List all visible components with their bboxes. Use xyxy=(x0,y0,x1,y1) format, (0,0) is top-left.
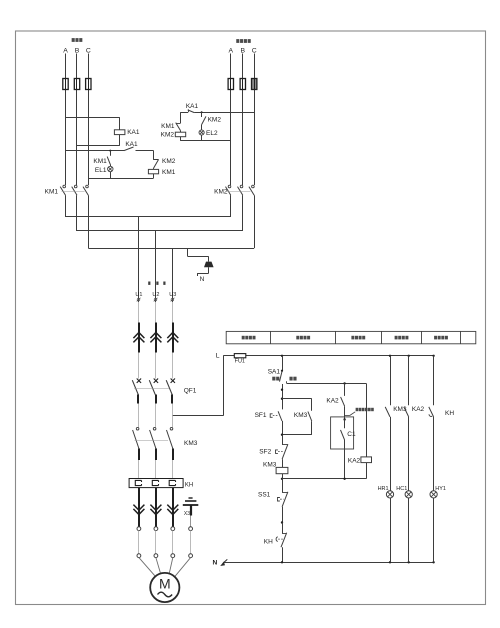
svg-text:U1: U1 xyxy=(135,292,142,298)
svg-text:U2: U2 xyxy=(152,292,159,298)
svg-text:KM3: KM3 xyxy=(294,412,308,419)
svg-text:KA1: KA1 xyxy=(125,141,138,148)
svg-text:EL2: EL2 xyxy=(206,130,218,137)
svg-text:N: N xyxy=(200,276,205,283)
svg-text:B: B xyxy=(241,48,246,55)
svg-text:HC1: HC1 xyxy=(396,486,407,492)
svg-text:M: M xyxy=(159,576,171,592)
svg-text:A: A xyxy=(229,48,234,55)
svg-text:SS1: SS1 xyxy=(258,491,271,498)
svg-text:KM2: KM2 xyxy=(161,132,175,139)
svg-text:KM1: KM1 xyxy=(93,158,107,165)
svg-text:KA1: KA1 xyxy=(127,129,140,136)
svg-text:HR1: HR1 xyxy=(378,486,389,492)
svg-text:KM2: KM2 xyxy=(162,158,176,165)
svg-text:C1: C1 xyxy=(347,431,356,438)
svg-text:KM1: KM1 xyxy=(45,188,59,195)
svg-text:KH: KH xyxy=(264,539,273,546)
svg-text:KA2: KA2 xyxy=(348,457,361,464)
svg-text:QF1: QF1 xyxy=(184,388,197,395)
svg-text:KA1: KA1 xyxy=(186,103,199,110)
svg-text:KH: KH xyxy=(445,410,454,417)
svg-text:FU1: FU1 xyxy=(235,358,245,364)
svg-text:U3: U3 xyxy=(169,292,176,298)
svg-text:KA2: KA2 xyxy=(326,397,339,404)
svg-text:KM1: KM1 xyxy=(162,169,176,176)
svg-text:KM2: KM2 xyxy=(208,117,222,124)
svg-text:KM2: KM2 xyxy=(214,188,228,195)
svg-text:SF1: SF1 xyxy=(255,412,267,419)
svg-text:KM1: KM1 xyxy=(161,123,175,130)
svg-text:EL1: EL1 xyxy=(95,167,107,174)
svg-text:B: B xyxy=(75,48,80,55)
svg-text:KM3: KM3 xyxy=(263,462,277,469)
svg-text:HY1: HY1 xyxy=(435,486,446,492)
svg-text:L: L xyxy=(216,352,220,359)
svg-text:C: C xyxy=(252,48,257,55)
svg-text:X3: X3 xyxy=(184,511,190,517)
svg-text:KM3: KM3 xyxy=(184,440,198,447)
svg-text:C: C xyxy=(86,48,91,55)
svg-text:N: N xyxy=(213,559,218,566)
svg-text:A: A xyxy=(63,48,68,55)
svg-text:SF2: SF2 xyxy=(259,449,271,456)
svg-text:SA1: SA1 xyxy=(268,369,281,376)
svg-text:KH: KH xyxy=(185,483,193,489)
svg-text:KA2: KA2 xyxy=(412,406,425,413)
